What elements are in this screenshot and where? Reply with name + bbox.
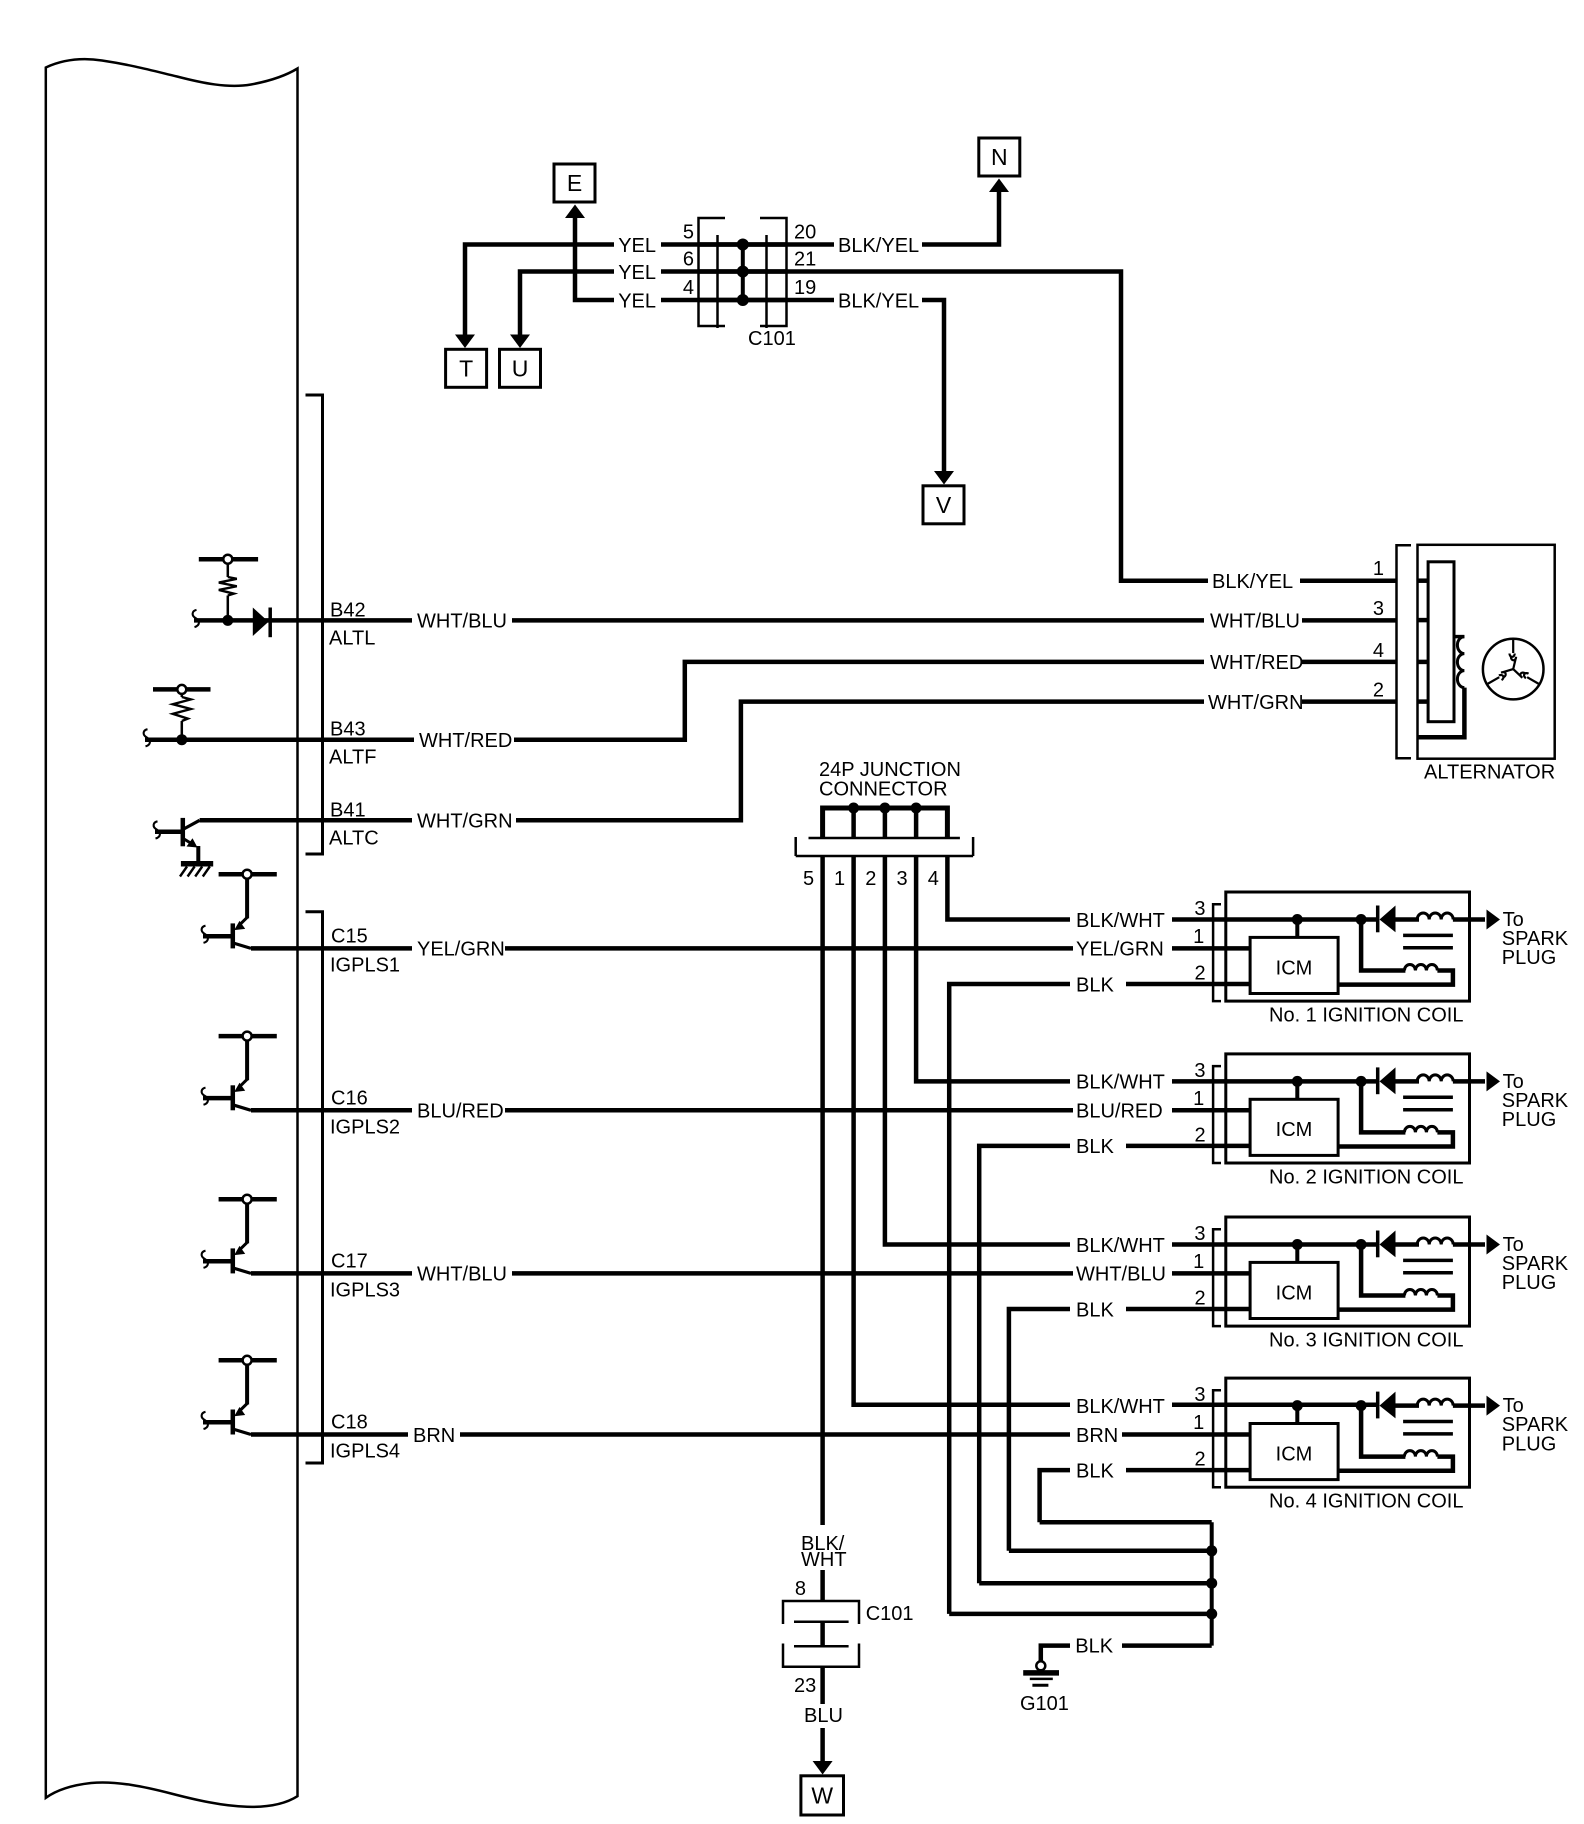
svg-text:ALTC: ALTC	[329, 827, 379, 849]
svg-text:BLK: BLK	[1075, 1636, 1113, 1658]
svg-text:YEL: YEL	[618, 290, 656, 312]
svg-text:YEL/GRN: YEL/GRN	[1076, 939, 1164, 961]
svg-text:C17: C17	[331, 1250, 368, 1272]
svg-text:4: 4	[928, 868, 939, 890]
svg-text:1: 1	[1373, 558, 1384, 580]
svg-text:1: 1	[1193, 1251, 1204, 1273]
svg-text:WHT/GRN: WHT/GRN	[1208, 692, 1304, 714]
svg-text:C101: C101	[748, 328, 796, 350]
svg-text:BLK/YEL: BLK/YEL	[1212, 571, 1293, 593]
svg-text:6: 6	[683, 249, 694, 271]
svg-text:WHT/BLU: WHT/BLU	[1210, 611, 1300, 633]
svg-text:BLK/YEL: BLK/YEL	[838, 290, 919, 312]
svg-text:BLK: BLK	[1076, 1136, 1114, 1158]
svg-text:YEL: YEL	[618, 262, 656, 284]
svg-text:BLK/WHT: BLK/WHT	[1076, 1396, 1165, 1418]
svg-text:IGPLS2: IGPLS2	[330, 1116, 400, 1138]
svg-text:20: 20	[794, 222, 816, 244]
svg-text:B42: B42	[330, 599, 366, 621]
svg-text:WHT/BLU: WHT/BLU	[417, 611, 507, 633]
svg-text:WHT: WHT	[801, 1549, 847, 1571]
svg-text:W: W	[811, 1783, 833, 1809]
svg-text:BRN: BRN	[1076, 1425, 1118, 1447]
svg-text:1: 1	[1193, 926, 1204, 948]
svg-text:U: U	[512, 356, 529, 382]
svg-text:4: 4	[1373, 640, 1384, 662]
svg-text:CONNECTOR: CONNECTOR	[819, 779, 948, 801]
svg-text:ICM: ICM	[1276, 1443, 1313, 1465]
svg-text:C15: C15	[331, 925, 368, 947]
svg-text:2: 2	[1194, 1124, 1205, 1146]
svg-text:ALTERNATOR: ALTERNATOR	[1424, 762, 1555, 784]
svg-text:PLUG: PLUG	[1502, 947, 1556, 969]
svg-text:3: 3	[1194, 898, 1205, 920]
svg-text:BLK/WHT: BLK/WHT	[1076, 1235, 1165, 1257]
svg-text:WHT/RED: WHT/RED	[1210, 652, 1303, 674]
svg-text:C18: C18	[331, 1412, 368, 1434]
svg-text:BRN: BRN	[413, 1425, 455, 1447]
svg-text:No. 2 IGNITION COIL: No. 2 IGNITION COIL	[1269, 1167, 1463, 1189]
svg-text:B41: B41	[330, 799, 366, 821]
svg-text:3: 3	[1373, 598, 1384, 620]
svg-text:3: 3	[896, 868, 907, 890]
svg-text:5: 5	[683, 222, 694, 244]
svg-text:5: 5	[803, 868, 814, 890]
svg-text:V: V	[936, 492, 952, 518]
svg-text:B43: B43	[330, 719, 366, 741]
svg-text:1: 1	[1193, 1412, 1204, 1434]
svg-text:8: 8	[795, 1578, 806, 1600]
svg-text:C101: C101	[866, 1603, 914, 1625]
svg-text:WHT/GRN: WHT/GRN	[417, 811, 513, 833]
svg-text:2: 2	[1194, 963, 1205, 985]
svg-text:BLK: BLK	[1076, 974, 1114, 996]
svg-text:BLU/RED: BLU/RED	[1076, 1101, 1163, 1123]
svg-text:BLK/WHT: BLK/WHT	[1076, 1072, 1165, 1094]
svg-text:C16: C16	[331, 1087, 368, 1109]
svg-text:BLK/YEL: BLK/YEL	[838, 235, 919, 257]
svg-text:ALTF: ALTF	[329, 747, 376, 769]
svg-text:IGPLS3: IGPLS3	[330, 1279, 400, 1301]
svg-text:1: 1	[834, 868, 845, 890]
svg-text:3: 3	[1194, 1223, 1205, 1245]
svg-text:E: E	[567, 170, 582, 196]
svg-text:2: 2	[1373, 680, 1384, 702]
svg-text:BLK/WHT: BLK/WHT	[1076, 910, 1165, 932]
svg-text:PLUG: PLUG	[1502, 1109, 1556, 1131]
svg-text:3: 3	[1194, 1060, 1205, 1082]
svg-text:WHT/BLU: WHT/BLU	[1076, 1264, 1166, 1286]
svg-text:PLUG: PLUG	[1502, 1272, 1556, 1294]
svg-text:1: 1	[1193, 1088, 1204, 1110]
svg-text:IGPLS1: IGPLS1	[330, 954, 400, 976]
svg-text:No. 1 IGNITION COIL: No. 1 IGNITION COIL	[1269, 1005, 1463, 1027]
svg-text:BLU: BLU	[804, 1705, 843, 1727]
svg-text:2: 2	[1194, 1288, 1205, 1310]
svg-text:PLUG: PLUG	[1502, 1433, 1556, 1455]
svg-text:23: 23	[794, 1675, 816, 1697]
svg-text:No. 4 IGNITION COIL: No. 4 IGNITION COIL	[1269, 1491, 1463, 1513]
svg-text:3: 3	[1194, 1384, 1205, 1406]
svg-text:BLU/RED: BLU/RED	[417, 1101, 504, 1123]
svg-text:WHT/BLU: WHT/BLU	[417, 1264, 507, 1286]
svg-text:ICM: ICM	[1276, 1282, 1313, 1304]
svg-text:BLK: BLK	[1076, 1299, 1114, 1321]
svg-text:IGPLS4: IGPLS4	[330, 1441, 400, 1463]
svg-text:T: T	[459, 356, 473, 382]
svg-text:4: 4	[683, 277, 694, 299]
svg-text:N: N	[991, 144, 1008, 170]
svg-text:2: 2	[865, 868, 876, 890]
svg-text:ICM: ICM	[1276, 957, 1313, 979]
svg-text:ICM: ICM	[1276, 1119, 1313, 1141]
svg-text:19: 19	[794, 277, 816, 299]
svg-text:YEL: YEL	[618, 235, 656, 257]
svg-text:BLK: BLK	[1076, 1460, 1114, 1482]
svg-text:WHT/RED: WHT/RED	[419, 730, 512, 752]
svg-text:ALTL: ALTL	[329, 627, 375, 649]
svg-text:21: 21	[794, 249, 816, 271]
svg-text:No. 3 IGNITION COIL: No. 3 IGNITION COIL	[1269, 1330, 1463, 1352]
svg-text:G101: G101	[1020, 1693, 1069, 1715]
svg-text:2: 2	[1194, 1449, 1205, 1471]
svg-text:YEL/GRN: YEL/GRN	[417, 939, 505, 961]
